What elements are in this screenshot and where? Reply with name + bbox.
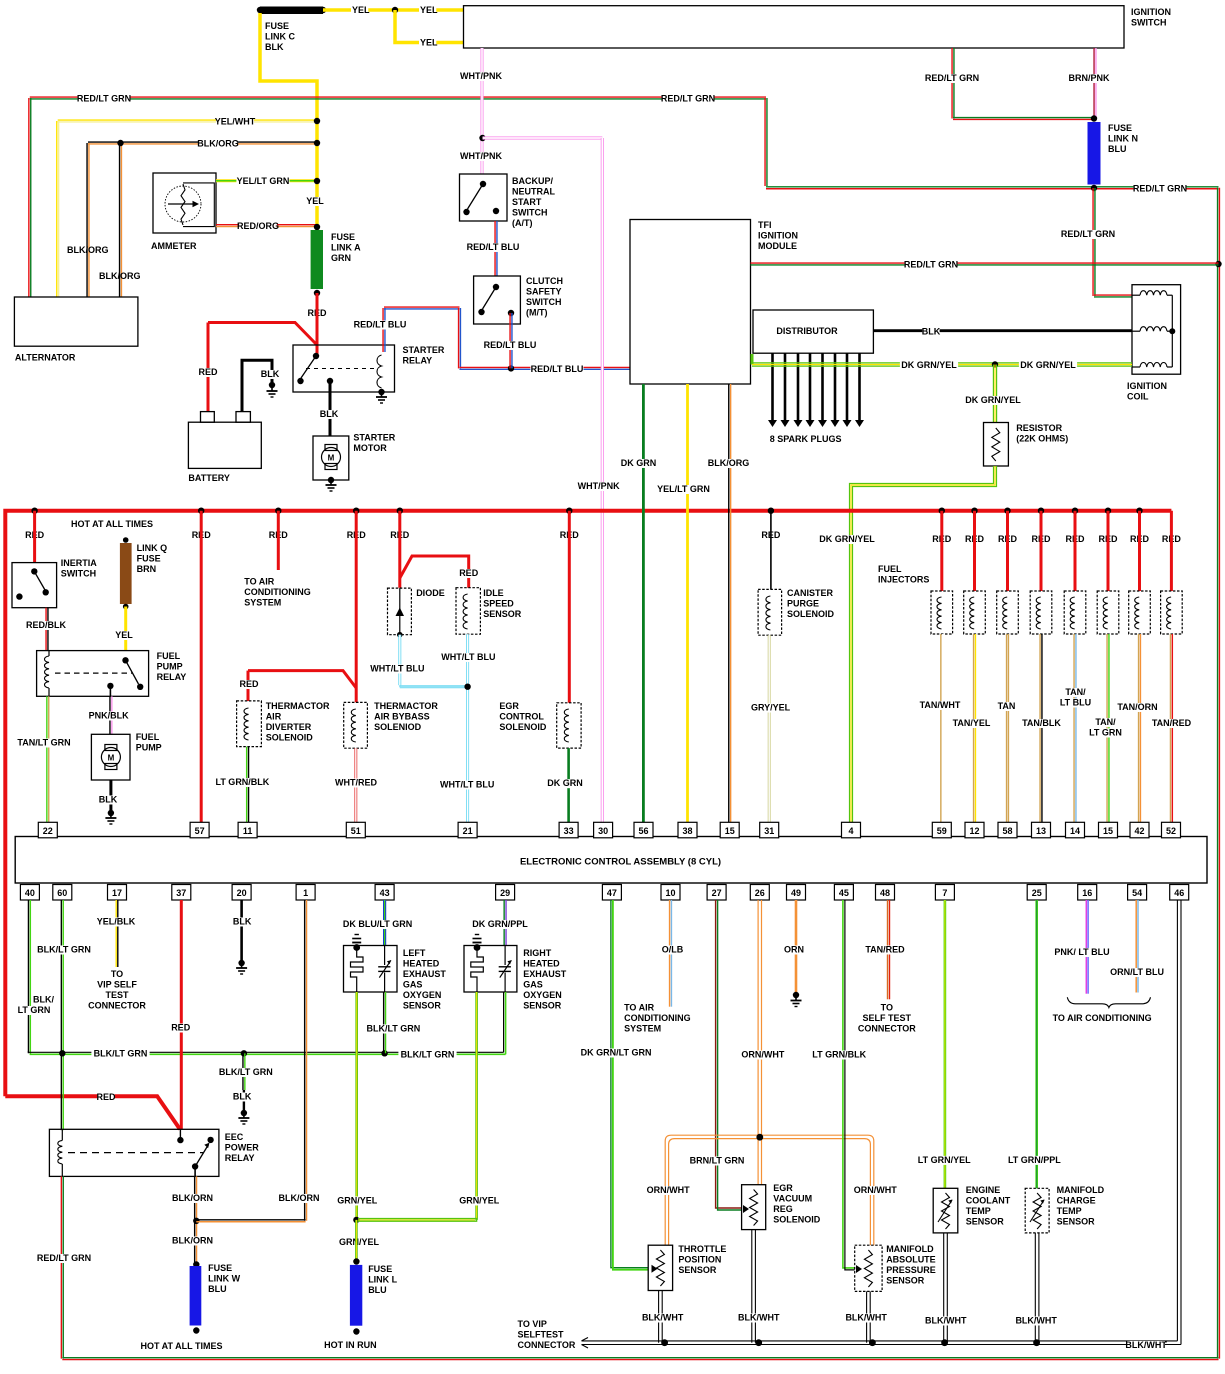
svg-text:BLK: BLK — [261, 369, 280, 379]
svg-text:DK GRN/LT GRN: DK GRN/LT GRN — [581, 1048, 652, 1058]
svg-text:LT GRN/BLK: LT GRN/BLK — [215, 777, 269, 787]
svg-text:21: 21 — [463, 826, 473, 836]
svg-text:47: 47 — [607, 888, 617, 898]
svg-text:BLK/WHT: BLK/WHT — [1125, 1340, 1167, 1350]
svg-text:LINK N: LINK N — [1108, 134, 1138, 144]
svg-text:59: 59 — [937, 826, 947, 836]
svg-text:SENSOR: SENSOR — [966, 1217, 1005, 1227]
svg-text:SENSOR: SENSOR — [886, 1276, 925, 1286]
svg-text:PUMP: PUMP — [136, 743, 162, 753]
svg-text:FUSE: FUSE — [331, 232, 355, 242]
svg-text:OXYGEN: OXYGEN — [523, 990, 562, 1000]
svg-text:RESISTOR: RESISTOR — [1016, 423, 1062, 433]
svg-text:FUSE: FUSE — [137, 554, 161, 564]
svg-text:IGNITION: IGNITION — [1131, 7, 1171, 17]
svg-text:SPEED: SPEED — [483, 599, 514, 609]
svg-text:SENSOR: SENSOR — [678, 1265, 717, 1275]
svg-text:BLK/WHT: BLK/WHT — [1015, 1316, 1057, 1326]
svg-text:WHT/LT BLU: WHT/LT BLU — [440, 780, 494, 790]
svg-text:27: 27 — [712, 888, 722, 898]
svg-text:BLK: BLK — [233, 917, 252, 927]
svg-text:BLK/WHT: BLK/WHT — [845, 1313, 887, 1323]
svg-text:TFI: TFI — [758, 220, 772, 230]
svg-text:RED/LT BLU: RED/LT BLU — [484, 340, 537, 350]
svg-text:THROTTLE: THROTTLE — [678, 1244, 726, 1254]
svg-text:SOLENOID: SOLENOID — [787, 609, 835, 619]
svg-text:LINK C: LINK C — [265, 32, 295, 42]
svg-text:EXHAUST: EXHAUST — [403, 969, 447, 979]
svg-text:ORN/LT BLU: ORN/LT BLU — [1110, 967, 1164, 977]
svg-text:BLK: BLK — [265, 42, 284, 52]
svg-text:SELF TEST: SELF TEST — [863, 1013, 912, 1023]
svg-text:26: 26 — [755, 888, 765, 898]
svg-text:SENSOR: SENSOR — [523, 1001, 562, 1011]
svg-text:EGR: EGR — [773, 1183, 793, 1193]
svg-text:13: 13 — [1036, 826, 1046, 836]
svg-text:51: 51 — [351, 826, 361, 836]
svg-text:BLK: BLK — [99, 795, 118, 805]
svg-text:AIR BYBASS: AIR BYBASS — [374, 712, 430, 722]
svg-text:WHT/PNK: WHT/PNK — [460, 151, 502, 161]
svg-text:RED/LT BLU: RED/LT BLU — [354, 320, 407, 330]
svg-text:CONTROL: CONTROL — [499, 712, 544, 722]
svg-text:DK GRN: DK GRN — [621, 458, 657, 468]
svg-text:OXYGEN: OXYGEN — [403, 990, 442, 1000]
svg-text:LT GRN/PPL: LT GRN/PPL — [1008, 1155, 1061, 1165]
svg-text:45: 45 — [839, 888, 849, 898]
svg-text:BRN/PNK: BRN/PNK — [1068, 73, 1110, 83]
svg-text:FUSE: FUSE — [368, 1264, 392, 1274]
svg-text:56: 56 — [638, 826, 648, 836]
svg-text:M: M — [328, 454, 335, 463]
svg-text:CANISTER: CANISTER — [787, 588, 834, 598]
svg-text:BLK: BLK — [922, 327, 941, 337]
svg-text:LT GRN: LT GRN — [18, 1005, 51, 1015]
svg-text:RELAY: RELAY — [403, 356, 433, 366]
svg-text:TAN/: TAN/ — [1065, 687, 1086, 697]
svg-text:WHT/PNK: WHT/PNK — [460, 71, 502, 81]
svg-text:DIODE: DIODE — [416, 588, 445, 598]
svg-text:DK GRN: DK GRN — [547, 778, 583, 788]
svg-text:YEL: YEL — [420, 38, 438, 48]
svg-text:CONDITIONING: CONDITIONING — [244, 587, 310, 597]
svg-text:GAS: GAS — [403, 980, 423, 990]
svg-text:MANIFOLD: MANIFOLD — [886, 1244, 934, 1254]
svg-text:RED/LT BLU: RED/LT BLU — [531, 364, 584, 374]
svg-text:GAS: GAS — [523, 980, 543, 990]
svg-text:RED/BLK: RED/BLK — [26, 620, 66, 630]
svg-text:TEMP: TEMP — [1057, 1206, 1082, 1216]
svg-text:CONNECTOR: CONNECTOR — [858, 1024, 916, 1034]
svg-text:SOLENIOD: SOLENIOD — [374, 722, 422, 732]
svg-text:START: START — [512, 197, 542, 207]
svg-text:BLK/LT GRN: BLK/LT GRN — [219, 1067, 273, 1077]
svg-text:RELAY: RELAY — [225, 1153, 255, 1163]
svg-text:RIGHT: RIGHT — [523, 948, 552, 958]
svg-text:SOLENOID: SOLENOID — [499, 722, 547, 732]
svg-text:TAN/LT GRN: TAN/LT GRN — [17, 738, 70, 748]
svg-text:BLK/LT GRN: BLK/LT GRN — [94, 1049, 148, 1059]
svg-text:SWITCH: SWITCH — [512, 208, 548, 218]
svg-text:PUMP: PUMP — [157, 662, 183, 672]
svg-text:THERMACTOR: THERMACTOR — [374, 701, 438, 711]
svg-text:HEATED: HEATED — [403, 959, 440, 969]
svg-text:10: 10 — [665, 888, 675, 898]
svg-text:48: 48 — [880, 888, 890, 898]
svg-text:BLK/ORG: BLK/ORG — [197, 139, 239, 149]
svg-text:POSITION: POSITION — [678, 1255, 721, 1265]
svg-text:POWER: POWER — [225, 1143, 260, 1153]
svg-text:25: 25 — [1032, 888, 1042, 898]
svg-text:YEL/WHT: YEL/WHT — [215, 117, 256, 127]
svg-text:RED: RED — [239, 679, 259, 689]
svg-text:RED/LT GRN: RED/LT GRN — [1061, 229, 1115, 239]
svg-text:EGR: EGR — [499, 701, 519, 711]
svg-text:IGNITION: IGNITION — [758, 231, 798, 241]
svg-text:SENSOR: SENSOR — [403, 1001, 442, 1011]
svg-text:11: 11 — [243, 826, 253, 836]
svg-text:RED: RED — [171, 1023, 191, 1033]
svg-text:CLUTCH: CLUTCH — [526, 276, 563, 286]
svg-text:TAN/WHT: TAN/WHT — [920, 700, 961, 710]
svg-text:30: 30 — [598, 826, 608, 836]
svg-text:PRESSURE: PRESSURE — [886, 1265, 936, 1275]
svg-text:42: 42 — [1134, 826, 1144, 836]
svg-text:SYSTEM: SYSTEM — [244, 598, 281, 608]
svg-text:PNK/ LT BLU: PNK/ LT BLU — [1054, 947, 1109, 957]
svg-text:TAN/: TAN/ — [1095, 717, 1116, 727]
svg-text:LINK Q: LINK Q — [137, 543, 168, 553]
svg-text:RED/LT GRN: RED/LT GRN — [37, 1253, 91, 1263]
svg-text:TEST: TEST — [105, 990, 129, 1000]
svg-text:BLK/LT GRN: BLK/LT GRN — [401, 1050, 455, 1060]
svg-text:BACKUP/: BACKUP/ — [512, 176, 554, 186]
svg-text:M: M — [108, 754, 115, 763]
svg-text:RED/ORG: RED/ORG — [237, 221, 279, 231]
svg-text:43: 43 — [380, 888, 390, 898]
svg-text:YEL: YEL — [306, 196, 324, 206]
svg-text:MODULE: MODULE — [758, 241, 797, 251]
svg-text:BLK/WHT: BLK/WHT — [925, 1316, 967, 1326]
svg-text:SELFTEST: SELFTEST — [518, 1330, 565, 1340]
svg-text:FUSE: FUSE — [1108, 123, 1132, 133]
svg-text:SWITCH: SWITCH — [526, 297, 562, 307]
svg-text:SWITCH: SWITCH — [1131, 18, 1167, 28]
svg-text:SENSOR: SENSOR — [1057, 1217, 1096, 1227]
svg-text:FUSE: FUSE — [208, 1263, 232, 1273]
svg-text:BLU: BLU — [208, 1284, 227, 1294]
svg-text:IDLE: IDLE — [483, 588, 504, 598]
svg-text:IGNITION: IGNITION — [1127, 381, 1167, 391]
svg-text:LT BLU: LT BLU — [1060, 698, 1091, 708]
svg-text:REG: REG — [773, 1204, 793, 1214]
svg-text:DK BLU/LT GRN: DK BLU/LT GRN — [343, 919, 412, 929]
svg-text:EXHAUST: EXHAUST — [523, 969, 567, 979]
svg-text:DK GRN/YEL: DK GRN/YEL — [819, 534, 875, 544]
svg-text:31: 31 — [764, 826, 774, 836]
svg-text:17: 17 — [112, 888, 122, 898]
svg-text:BLU: BLU — [1108, 144, 1127, 154]
svg-text:ALTERNATOR: ALTERNATOR — [15, 353, 76, 363]
svg-text:22: 22 — [43, 826, 53, 836]
svg-text:46: 46 — [1174, 888, 1184, 898]
svg-text:DISTRIBUTOR: DISTRIBUTOR — [776, 326, 838, 336]
svg-text:RED: RED — [459, 568, 479, 578]
svg-text:FUEL: FUEL — [157, 651, 181, 661]
svg-text:CONNECTOR: CONNECTOR — [518, 1340, 576, 1350]
svg-text:38: 38 — [682, 826, 692, 836]
svg-text:33: 33 — [564, 826, 574, 836]
svg-text:TAN: TAN — [998, 701, 1016, 711]
svg-text:60: 60 — [57, 888, 67, 898]
svg-text:RED: RED — [96, 1092, 116, 1102]
svg-text:12: 12 — [969, 826, 979, 836]
svg-text:WHT/PNK: WHT/PNK — [578, 481, 620, 491]
svg-text:(A/T): (A/T) — [512, 218, 533, 228]
svg-text:AIR: AIR — [266, 712, 282, 722]
svg-text:40: 40 — [25, 888, 35, 898]
svg-text:YEL/LT GRN: YEL/LT GRN — [657, 484, 710, 494]
svg-text:LT GRN/YEL: LT GRN/YEL — [918, 1155, 971, 1165]
svg-text:DK GRN/YEL: DK GRN/YEL — [965, 395, 1021, 405]
svg-text:PURGE: PURGE — [787, 599, 819, 609]
svg-text:BLK/ORN: BLK/ORN — [172, 1193, 213, 1203]
svg-text:CONDITIONING: CONDITIONING — [624, 1013, 691, 1023]
svg-text:BLK/WHT: BLK/WHT — [642, 1313, 684, 1323]
svg-text:ORN/WHT: ORN/WHT — [741, 1050, 784, 1060]
svg-text:STARTER: STARTER — [353, 433, 395, 443]
svg-text:WHT/RED: WHT/RED — [335, 778, 377, 788]
svg-text:SYSTEM: SYSTEM — [624, 1024, 661, 1034]
svg-text:SENSOR: SENSOR — [483, 609, 522, 619]
svg-text:BLK/LT GRN: BLK/LT GRN — [37, 945, 91, 955]
svg-text:RED/LT BLU: RED/LT BLU — [467, 242, 520, 252]
svg-text:TAN/ORN: TAN/ORN — [1117, 702, 1157, 712]
svg-text:BLK/ORN: BLK/ORN — [279, 1193, 320, 1203]
svg-text:7: 7 — [942, 888, 947, 898]
svg-text:(M/T): (M/T) — [526, 308, 548, 318]
svg-text:RELAY: RELAY — [157, 672, 187, 682]
svg-text:RED/LT GRN: RED/LT GRN — [77, 94, 131, 104]
svg-text:DK GRN/YEL: DK GRN/YEL — [1020, 360, 1076, 370]
svg-text:54: 54 — [1132, 888, 1142, 898]
svg-text:ORN: ORN — [784, 945, 804, 955]
svg-text:COIL: COIL — [1127, 392, 1149, 402]
svg-text:BLU: BLU — [368, 1285, 387, 1295]
svg-text:NEUTRAL: NEUTRAL — [512, 187, 555, 197]
svg-text:BLK/WHT: BLK/WHT — [738, 1313, 780, 1323]
svg-text:AMMETER: AMMETER — [151, 241, 197, 251]
svg-text:20: 20 — [237, 888, 247, 898]
svg-text:(22K OHMS): (22K OHMS) — [1016, 434, 1068, 444]
svg-text:TO AIR: TO AIR — [624, 1003, 655, 1013]
svg-text:15: 15 — [725, 826, 735, 836]
svg-text:TO AIR CONDITIONING: TO AIR CONDITIONING — [1053, 1013, 1152, 1023]
svg-text:58: 58 — [1002, 826, 1012, 836]
svg-text:RED/LT GRN: RED/LT GRN — [661, 94, 715, 104]
svg-text:YEL/LT GRN: YEL/LT GRN — [237, 176, 290, 186]
svg-text:RED/LT GRN: RED/LT GRN — [925, 73, 979, 83]
svg-text:YEL: YEL — [420, 5, 438, 15]
svg-text:ENGINE: ENGINE — [966, 1185, 1001, 1195]
svg-text:4: 4 — [848, 826, 853, 836]
svg-text:LT GRN: LT GRN — [1089, 728, 1122, 738]
svg-text:16: 16 — [1082, 888, 1092, 898]
svg-text:RED/LT GRN: RED/LT GRN — [1133, 184, 1187, 194]
svg-text:MOTOR: MOTOR — [353, 443, 387, 453]
svg-text:BLK/ORG: BLK/ORG — [67, 245, 109, 255]
svg-text:HEATED: HEATED — [523, 959, 560, 969]
svg-text:BRN: BRN — [137, 564, 157, 574]
svg-text:37: 37 — [176, 888, 186, 898]
svg-text:29: 29 — [500, 888, 510, 898]
svg-text:FUEL: FUEL — [136, 732, 160, 742]
svg-text:ELECTRONIC CONTROL ASSEMBLY: ELECTRONIC CONTROL ASSEMBLY (8 CYL) — [520, 857, 721, 868]
svg-text:HOT AT ALL TIMES: HOT AT ALL TIMES — [71, 519, 153, 529]
svg-text:49: 49 — [791, 888, 801, 898]
svg-text:BLK: BLK — [233, 1092, 252, 1102]
svg-text:8 SPARK PLUGS: 8 SPARK PLUGS — [770, 434, 842, 444]
svg-text:GRN/YEL: GRN/YEL — [339, 1237, 380, 1247]
svg-text:WHT/LT BLU: WHT/LT BLU — [370, 664, 424, 674]
svg-text:LT GRN/BLK: LT GRN/BLK — [812, 1050, 866, 1060]
svg-text:1: 1 — [303, 888, 308, 898]
svg-text:YEL: YEL — [352, 5, 370, 15]
svg-text:52: 52 — [1166, 826, 1176, 836]
svg-text:WHT/LT BLU: WHT/LT BLU — [441, 652, 495, 662]
svg-text:TAN/RED: TAN/RED — [1152, 718, 1192, 728]
svg-text:TAN/RED: TAN/RED — [865, 945, 905, 955]
svg-text:DK GRN/YEL: DK GRN/YEL — [901, 360, 957, 370]
svg-text:SAFETY: SAFETY — [526, 287, 562, 297]
svg-text:LINK W: LINK W — [208, 1274, 240, 1284]
svg-text:BLK: BLK — [320, 409, 339, 419]
svg-text:BLK/ORG: BLK/ORG — [708, 458, 750, 468]
svg-text:YEL/BLK: YEL/BLK — [97, 917, 136, 927]
svg-text:DK GRN/PPL: DK GRN/PPL — [472, 919, 528, 929]
svg-text:ORN/WHT: ORN/WHT — [647, 1185, 690, 1195]
svg-text:TO AIR: TO AIR — [244, 577, 275, 587]
svg-text:ABSOLUTE: ABSOLUTE — [886, 1255, 936, 1265]
svg-text:RED/LT GRN: RED/LT GRN — [904, 260, 958, 270]
svg-text:LINK A: LINK A — [331, 243, 361, 253]
svg-text:STARTER: STARTER — [403, 345, 445, 355]
svg-text:BLK/: BLK/ — [33, 995, 54, 1005]
svg-text:SOLENOID: SOLENOID — [266, 733, 314, 743]
svg-text:GRN/YEL: GRN/YEL — [459, 1196, 500, 1206]
svg-text:INERTIA: INERTIA — [61, 558, 98, 568]
svg-text:TO: TO — [111, 969, 123, 979]
svg-text:DIVERTER: DIVERTER — [266, 722, 312, 732]
svg-text:FUSE: FUSE — [265, 21, 289, 31]
svg-text:RED: RED — [198, 367, 218, 377]
svg-text:TAN/YEL: TAN/YEL — [953, 718, 991, 728]
svg-text:14: 14 — [1070, 826, 1080, 836]
svg-text:CHARGE: CHARGE — [1057, 1196, 1096, 1206]
svg-text:TAN/BLK: TAN/BLK — [1022, 718, 1061, 728]
svg-text:BRN/LT GRN: BRN/LT GRN — [690, 1156, 745, 1166]
svg-text:GRN: GRN — [331, 253, 351, 263]
svg-text:BLK/ORN: BLK/ORN — [172, 1236, 213, 1246]
svg-text:BLK/ORG: BLK/ORG — [99, 271, 141, 281]
svg-text:VIP SELF: VIP SELF — [97, 980, 137, 990]
svg-text:BLK/LT GRN: BLK/LT GRN — [366, 1024, 420, 1034]
svg-text:THERMACTOR: THERMACTOR — [266, 701, 330, 711]
svg-text:57: 57 — [195, 826, 205, 836]
svg-text:SOLENOID: SOLENOID — [773, 1215, 821, 1225]
svg-text:O/LB: O/LB — [662, 945, 684, 955]
svg-text:LEFT: LEFT — [403, 948, 426, 958]
svg-text:15: 15 — [1103, 826, 1113, 836]
svg-text:ORN/WHT: ORN/WHT — [854, 1185, 897, 1195]
svg-text:VACUUM: VACUUM — [773, 1194, 812, 1204]
svg-text:PNK/BLK: PNK/BLK — [89, 711, 129, 721]
svg-text:HOT AT ALL TIMES: HOT AT ALL TIMES — [141, 1341, 223, 1351]
svg-text:YEL: YEL — [115, 630, 133, 640]
svg-text:FUEL: FUEL — [878, 564, 902, 574]
svg-text:COOLANT: COOLANT — [966, 1196, 1011, 1206]
svg-text:GRN/YEL: GRN/YEL — [337, 1196, 378, 1206]
svg-text:BATTERY: BATTERY — [188, 473, 230, 483]
svg-text:TO VIP: TO VIP — [518, 1319, 547, 1329]
svg-text:MANIFOLD: MANIFOLD — [1057, 1185, 1105, 1195]
svg-text:TO: TO — [881, 1003, 893, 1013]
svg-text:INJECTORS: INJECTORS — [878, 575, 929, 585]
svg-text:EEC: EEC — [225, 1132, 244, 1142]
svg-text:TEMP: TEMP — [966, 1206, 991, 1216]
svg-text:GRY/YEL: GRY/YEL — [751, 703, 791, 713]
svg-text:CONNECTOR: CONNECTOR — [88, 1001, 146, 1011]
svg-text:SWITCH: SWITCH — [61, 569, 96, 579]
svg-text:LINK L: LINK L — [368, 1275, 397, 1285]
svg-text:HOT IN RUN: HOT IN RUN — [324, 1340, 377, 1350]
